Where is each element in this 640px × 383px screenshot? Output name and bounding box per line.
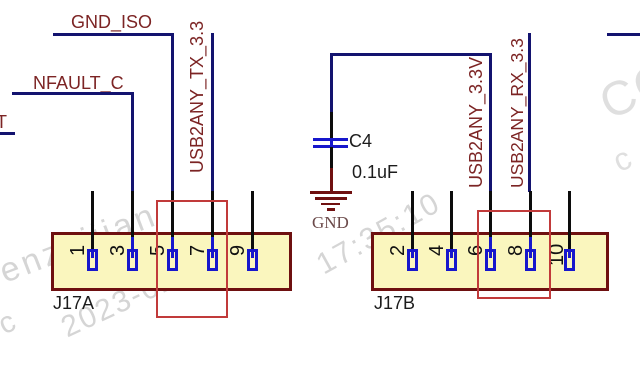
wire between plates (blue) [330,140,333,145]
wire C4 net vertical down to capacitor [330,53,333,112]
net label NFAULT_C [33,74,124,92]
connector J17A reference label [53,294,94,312]
J17B pin 10 number [547,243,567,265]
watermark date line [57,243,227,344]
ground label GND [312,214,349,231]
J17B pin 2 [411,191,414,249]
J17A pin 3 [131,191,134,239]
J17A pin 1 [91,191,94,249]
J17A pin 9 [251,191,254,249]
wire USB2ANY_TX_3.3 vertical to J17A pin 7 [211,33,214,192]
connector J17A body [51,232,292,291]
watermark small c right [608,140,638,177]
watermark c lower left [0,306,22,340]
wire NFAULT_C horizontal [12,92,133,95]
watermark chenzhijian line 1 [0,198,162,289]
wire GND_ISO horizontal [53,33,173,36]
wire C4 top pin (black) [330,112,333,138]
J17A pin 5 number [148,245,168,256]
J17B pin 4 number [427,245,447,256]
wire GND_ISO vertical to J17A pin 5 [171,33,174,192]
wire left edge stub [0,132,15,135]
capacitor C4 bottom plate [313,145,348,148]
highlight rectangle J17B pins 6-8 [477,210,551,299]
net label USB2ANY_3.3V (vertical) [467,56,485,187]
J17A pin 3 number [108,245,128,256]
wire USB2ANY_RX_3.3 vertical to J17B pin 8 [528,33,531,192]
connector J17B reference label [374,294,415,312]
wire GND net (dark red) [330,168,333,192]
ground symbol GND [310,191,352,194]
wire C4 net horizontal [330,53,490,56]
net label USB2ANY_TX_3.3 (vertical) [188,20,206,172]
wire C4 bottom pin (black) [330,147,333,168]
capacitor C4 top plate [313,138,348,141]
J17A pin 1 number [68,245,88,256]
J17B pin 4 [450,191,453,249]
J17B pin 8 number [506,245,526,256]
watermark CO top right [593,53,640,129]
J17A pin 9 number [228,245,248,256]
label C4 value 0.1uF [352,163,398,181]
connector J17B body [371,232,609,291]
net label fragment T (left edge) [0,113,7,131]
wire top right stub [607,33,640,36]
J17A pin 7 [211,191,214,239]
J17A pin 5 [171,191,174,239]
J17A pin 7 number [188,245,208,256]
net label GND_ISO [71,13,152,31]
wire USB2ANY_3.3V vertical to J17B pin 6 [489,53,492,192]
watermark time line [312,187,446,280]
highlight rectangle J17A pins 5-7 [156,200,228,318]
J17B pin 10 [568,191,571,249]
label C4 reference [349,132,372,150]
J17B pin 2 number [388,245,408,256]
J17B pin 6 [489,191,492,239]
wire NFAULT_C vertical to J17A pin 3 [131,92,134,192]
net label USB2ANY_RX_3.3 (vertical) [508,38,526,188]
J17B pin 8 [529,191,532,239]
J17B pin 6 number [466,245,486,256]
